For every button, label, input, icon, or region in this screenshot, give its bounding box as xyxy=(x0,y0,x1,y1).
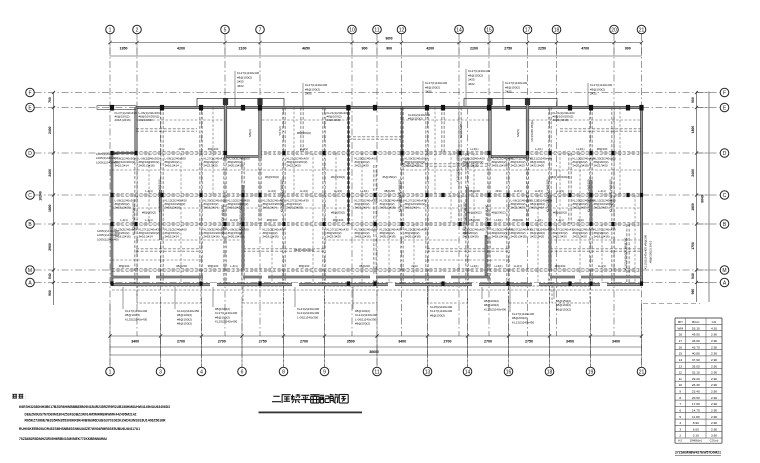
svg-text:#8@200(2): #8@200(2) xyxy=(331,211,345,215)
svg-text:14: 14 xyxy=(456,27,462,33)
svg-text:3.10: 3.10 xyxy=(693,434,699,438)
svg-text:F: F xyxy=(723,90,726,96)
svg-text:49.50: 49.50 xyxy=(692,333,700,337)
svg-text:L-4(1): L-4(1) xyxy=(120,218,128,222)
svg-text:YKT(2): YKT(2) xyxy=(278,126,282,136)
svg-text:43.70: 43.70 xyxy=(692,345,700,349)
svg-text:L-4(1): L-4(1) xyxy=(598,189,606,193)
svg-text:#8@200(2): #8@200(2) xyxy=(491,211,505,215)
svg-text:2700: 2700 xyxy=(444,340,452,344)
svg-text:L-06(1)240x300: L-06(1)240x300 xyxy=(297,315,319,319)
svg-text:KL10(2)240x400 #8@200: KL10(2)240x400 #8@200 xyxy=(644,234,648,269)
svg-text:7: 7 xyxy=(259,27,262,33)
svg-text:3500: 3500 xyxy=(347,340,355,344)
svg-text:14: 14 xyxy=(465,369,471,375)
svg-text:#8@200: #8@200 xyxy=(333,218,344,222)
svg-text:2#14: 2#14 xyxy=(178,147,185,151)
svg-text:#6@150(2): #6@150(2) xyxy=(553,211,567,215)
svg-text:10: 10 xyxy=(679,383,683,387)
svg-text:18: 18 xyxy=(679,333,683,337)
svg-text::: : xyxy=(25,395,26,400)
svg-text:#8@200: #8@200 xyxy=(469,218,480,222)
svg-text:19: 19 xyxy=(588,369,594,375)
svg-text:11: 11 xyxy=(374,27,379,33)
svg-text:18: 18 xyxy=(554,27,560,33)
svg-text:2#20;(3#18): 2#20;(3#18) xyxy=(228,164,244,168)
svg-text:KL12(2)240x450: KL12(2)240x450 xyxy=(512,320,535,324)
svg-text:2#22;3#20: 2#22;3#20 xyxy=(204,164,219,168)
svg-text:2#25: 2#25 xyxy=(305,92,312,96)
svg-text:#8@200: #8@200 xyxy=(384,189,395,193)
svg-text:2: 2 xyxy=(679,434,681,438)
svg-text:20: 20 xyxy=(611,27,617,33)
svg-text:KL3(2)240x500 #8@200: KL3(2)240x500 #8@200 xyxy=(239,202,243,235)
svg-text:2#18;(2#16): 2#18;(2#16) xyxy=(115,206,131,210)
svg-text:2#18;(2#16): 2#18;(2#16) xyxy=(594,235,610,239)
svg-text:540: 540 xyxy=(48,273,52,279)
svg-text:2.90: 2.90 xyxy=(711,390,717,394)
svg-text:17.60: 17.60 xyxy=(692,402,700,406)
svg-text:2.90: 2.90 xyxy=(711,409,717,413)
svg-text:16: 16 xyxy=(679,345,683,349)
svg-text:4#22: 4#22 xyxy=(237,84,244,88)
svg-text:2#22;3#20: 2#22;3#20 xyxy=(511,164,526,168)
svg-text:1800: 1800 xyxy=(691,203,695,211)
svg-text:23.40: 23.40 xyxy=(692,390,700,394)
svg-text:KL3(2)240x500 #8@200: KL3(2)240x500 #8@200 xyxy=(587,179,591,212)
svg-text:13: 13 xyxy=(679,364,683,368)
svg-text:2#20;(3#18): 2#20;(3#18) xyxy=(405,235,421,239)
svg-text:#8@200: #8@200 xyxy=(469,189,480,193)
svg-text:M2(3)4x88: M2(3)4x88 xyxy=(459,124,463,139)
svg-text:2#22;3#20: 2#22;3#20 xyxy=(573,206,588,210)
svg-text:18: 18 xyxy=(547,369,553,375)
svg-text:5: 5 xyxy=(679,415,681,419)
svg-text:3#16;2#14: 3#16;2#14 xyxy=(165,235,180,239)
svg-text:L005(1)240x400: L005(1)240x400 xyxy=(96,160,118,164)
svg-text:#8@100(2) 2#16: #8@100(2) 2#16 xyxy=(649,240,653,263)
svg-text:BH: BH xyxy=(678,320,682,324)
svg-text:2#18;(2#16): 2#18;(2#16) xyxy=(165,206,181,210)
svg-text:#6@150(2): #6@150(2) xyxy=(382,175,396,179)
svg-text:900: 900 xyxy=(691,97,695,103)
svg-text:#8@100(2): #8@100(2) xyxy=(408,117,423,121)
svg-text:L-4(1): L-4(1) xyxy=(535,218,543,222)
svg-text:2700: 2700 xyxy=(300,340,308,344)
svg-text:27ZSKM9BW427EW57D0M21: 27ZSKM9BW427EW57D0M21 xyxy=(675,451,721,455)
svg-text:20.50: 20.50 xyxy=(692,396,700,400)
svg-text:LL3(1): LL3(1) xyxy=(268,189,276,193)
svg-text:2#18;(2#16): 2#18;(2#16) xyxy=(492,164,508,168)
svg-text:L005(1)240x400: L005(1)240x400 xyxy=(97,237,119,241)
svg-text:#8@200: #8@200 xyxy=(555,264,566,268)
svg-text:L-4(1): L-4(1) xyxy=(230,264,238,268)
svg-text:900: 900 xyxy=(48,290,52,296)
svg-text:LL3(1): LL3(1) xyxy=(470,147,478,151)
svg-text:2#20;(3#18): 2#20;(3#18) xyxy=(573,164,589,168)
svg-text:9: 9 xyxy=(323,369,326,375)
svg-text:53.10: 53.10 xyxy=(692,326,700,330)
svg-text:14.70: 14.70 xyxy=(692,409,700,413)
svg-text:KL3(2)240x500 #8@200: KL3(2)240x500 #8@200 xyxy=(221,204,225,237)
svg-text:#8@100(2): #8@100(2) xyxy=(430,313,445,317)
svg-text:6: 6 xyxy=(241,369,244,375)
svg-text:2#22;3#20: 2#22;3#20 xyxy=(530,235,545,239)
svg-text:#8@200(2): #8@200(2) xyxy=(355,322,370,326)
svg-text:KL3(2)240x500 #8@200: KL3(2)240x500 #8@200 xyxy=(280,179,284,212)
svg-text:2700: 2700 xyxy=(177,340,185,344)
svg-text:2750: 2750 xyxy=(259,340,267,344)
svg-text:26.30: 26.30 xyxy=(692,383,700,387)
svg-text:12: 12 xyxy=(679,371,683,375)
svg-text:3400: 3400 xyxy=(612,340,620,344)
svg-text:#8@100/200(2): #8@100/200(2) xyxy=(550,175,570,179)
svg-text:2#20;(3#18): 2#20;(3#18) xyxy=(511,235,527,239)
svg-text:2.90: 2.90 xyxy=(711,396,717,400)
svg-text:2#22;3#20: 2#22;3#20 xyxy=(139,118,154,122)
svg-text:#8@100/200(2): #8@100/200(2) xyxy=(294,248,314,252)
svg-text:3: 3 xyxy=(679,427,681,431)
svg-text:2#18;(2#16): 2#18;(2#16) xyxy=(492,235,508,239)
svg-text:KL3(2)240x500 #8@200: KL3(2)240x500 #8@200 xyxy=(546,179,550,212)
svg-text:2#18;(2#16): 2#18;(2#16) xyxy=(355,235,371,239)
svg-text:12: 12 xyxy=(399,27,405,33)
svg-text:1800: 1800 xyxy=(691,126,695,134)
svg-text:900: 900 xyxy=(362,47,368,51)
svg-text:C: C xyxy=(723,193,727,199)
svg-text:2.90: 2.90 xyxy=(711,402,717,406)
svg-text:2400: 2400 xyxy=(48,126,52,134)
svg-text:8: 8 xyxy=(679,396,681,400)
svg-text:#8@200(2): #8@200(2) xyxy=(142,211,156,215)
svg-text:4200: 4200 xyxy=(426,47,434,51)
svg-text:#6@150(2): #6@150(2) xyxy=(556,307,571,311)
svg-text:F: F xyxy=(28,90,31,96)
svg-text:2#22;3#20: 2#22;3#20 xyxy=(553,235,568,239)
svg-text:LL3(1): LL3(1) xyxy=(300,147,308,151)
svg-text:HJ: HJ xyxy=(678,439,682,443)
svg-text:3.60: 3.60 xyxy=(711,434,717,438)
svg-text:6: 6 xyxy=(679,409,681,413)
svg-text:2400: 2400 xyxy=(48,169,52,177)
svg-text:K6ESH32380NH3B017B2SR6HWBBB85B: K6ESH32380NH3B017B2SR6HWBBB85B09N1B4R235… xyxy=(19,405,170,409)
svg-text:KL25(2)240x400: KL25(2)240x400 xyxy=(125,317,148,321)
svg-text:3: 3 xyxy=(159,369,162,375)
svg-text:#6@150(2): #6@150(2) xyxy=(331,175,345,179)
svg-text:3#16;2#14: 3#16;2#14 xyxy=(165,164,180,168)
svg-text:2.90: 2.90 xyxy=(711,345,717,349)
svg-text:LL3(1): LL3(1) xyxy=(230,218,238,222)
svg-text:2.90: 2.90 xyxy=(711,364,717,368)
svg-text:2#20;(3#18): 2#20;(3#18) xyxy=(139,164,155,168)
svg-text:1/C15x88 #8@2: 1/C15x88 #8@2 xyxy=(530,120,534,142)
svg-text:DEEZM9US7N7D69M1804Z524SDBZ2W0: DEEZM9US7N7D69M1804Z524SDBZ2W014M5MRRBMW… xyxy=(25,413,138,417)
svg-text:8.90: 8.90 xyxy=(693,421,699,425)
svg-text:17: 17 xyxy=(679,339,683,343)
svg-text:KL3(2)240x500 #8@200: KL3(2)240x500 #8@200 xyxy=(158,179,162,212)
svg-text:2#22;3#20: 2#22;3#20 xyxy=(511,206,526,210)
svg-text:2#18;(2#16): 2#18;(2#16) xyxy=(115,118,131,122)
svg-text:KL3(2)240x500 #8@200: KL3(2)240x500 #8@200 xyxy=(624,237,628,270)
svg-text:4#22: 4#22 xyxy=(468,82,475,86)
svg-text:LL3(1): LL3(1) xyxy=(576,147,584,151)
svg-text:2.90: 2.90 xyxy=(711,358,717,362)
svg-text:14: 14 xyxy=(679,358,683,362)
svg-text:21: 21 xyxy=(639,369,645,375)
svg-text:LL3(1): LL3(1) xyxy=(598,264,606,268)
svg-text:L-4(1): L-4(1) xyxy=(556,218,564,222)
svg-text:2.90: 2.90 xyxy=(711,339,717,343)
svg-text:2.90: 2.90 xyxy=(711,371,717,375)
svg-text:9600: 9600 xyxy=(385,37,392,41)
svg-text:2750: 2750 xyxy=(504,47,512,51)
svg-text:2.90: 2.90 xyxy=(711,427,717,431)
svg-text:13: 13 xyxy=(425,369,431,375)
svg-text:M: M xyxy=(28,268,32,274)
svg-text:15: 15 xyxy=(679,352,683,356)
svg-text:2.90: 2.90 xyxy=(711,383,717,387)
svg-text:2900: 2900 xyxy=(48,243,52,251)
svg-text:#8@200: #8@200 xyxy=(176,264,187,268)
svg-text:3#16;2#14: 3#16;2#14 xyxy=(263,206,278,210)
svg-text:L-4(1): L-4(1) xyxy=(145,189,153,193)
svg-text:D: D xyxy=(723,151,727,157)
svg-text:19466(m): 19466(m) xyxy=(690,439,702,443)
svg-text:CG: CG xyxy=(712,320,717,324)
svg-text:7: 7 xyxy=(679,402,681,406)
svg-text:11: 11 xyxy=(374,369,379,375)
svg-text:#8@200: #8@200 xyxy=(208,147,219,151)
svg-text:2#20;(3#18): 2#20;(3#18) xyxy=(380,206,396,210)
svg-text:4700: 4700 xyxy=(581,47,589,51)
svg-text:1950: 1950 xyxy=(120,47,128,51)
svg-text:LL3(1): LL3(1) xyxy=(494,218,502,222)
svg-text:900: 900 xyxy=(386,47,392,51)
svg-text:KL25(2)240x400: KL25(2)240x400 xyxy=(215,320,238,324)
svg-text:LL3(1): LL3(1) xyxy=(470,264,478,268)
svg-text:6.00: 6.00 xyxy=(693,427,699,431)
svg-text:2.90: 2.90 xyxy=(711,333,717,337)
svg-text:M5(2): M5(2) xyxy=(248,129,252,137)
svg-text:4200: 4200 xyxy=(177,47,185,51)
svg-text:2#20;(3#18): 2#20;(3#18) xyxy=(380,235,396,239)
svg-text:2: 2 xyxy=(136,27,139,33)
svg-text:2#18;(2#16): 2#18;(2#16) xyxy=(463,164,479,168)
svg-text:KL3(2)240x500 #8@200: KL3(2)240x500 #8@200 xyxy=(463,202,467,235)
svg-text:#6@150(2): #6@150(2) xyxy=(265,175,279,179)
svg-text:2#22;3#20: 2#22;3#20 xyxy=(287,164,302,168)
svg-text:3#16;2#14: 3#16;2#14 xyxy=(530,206,545,210)
svg-text:BGm: BGm xyxy=(692,320,699,324)
svg-text:2.90: 2.90 xyxy=(711,421,717,425)
svg-text:R65KZ7386E7B3S5RN355308KR8K40B: R65KZ7386E7B3S5RN355308KR8K40B9EM6DUBS37… xyxy=(25,419,166,423)
svg-text:17: 17 xyxy=(525,27,531,33)
svg-text:2400: 2400 xyxy=(691,169,695,177)
svg-text:46.60: 46.60 xyxy=(692,339,700,343)
svg-text:2200: 2200 xyxy=(470,47,478,51)
svg-text:KL3(2)240x500 #8@200: KL3(2)240x500 #8@200 xyxy=(485,204,489,237)
svg-text:9640: 9640 xyxy=(701,195,705,203)
svg-text:32.10: 32.10 xyxy=(692,371,700,375)
svg-text:M: M xyxy=(722,268,726,274)
svg-text:1: 1 xyxy=(109,369,112,375)
svg-text:#8@200: #8@200 xyxy=(299,264,310,268)
svg-text:2#22;3#20: 2#22;3#20 xyxy=(530,164,545,168)
svg-text:2#14: 2#14 xyxy=(577,218,584,222)
svg-text:L-4(1): L-4(1) xyxy=(145,218,153,222)
svg-text:2#25: 2#25 xyxy=(505,90,512,94)
svg-text:KL25(2)240x400: KL25(2)240x400 xyxy=(484,307,507,311)
svg-text:2#18;(2#16): 2#18;(2#16) xyxy=(263,235,279,239)
svg-text:2250: 2250 xyxy=(538,47,546,51)
svg-text:2#18;(2#16): 2#18;(2#16) xyxy=(204,235,220,239)
svg-text:2700: 2700 xyxy=(218,340,226,344)
svg-text:L-4(1): L-4(1) xyxy=(535,147,543,151)
svg-text:36600: 36600 xyxy=(369,350,379,354)
svg-text:#8@200: #8@200 xyxy=(359,264,370,268)
svg-text:2#25: 2#25 xyxy=(590,92,597,96)
svg-text:LL3(1): LL3(1) xyxy=(494,264,502,268)
svg-text:#8@200(2): #8@200(2) xyxy=(297,131,311,135)
svg-text:2#22;3#20: 2#22;3#20 xyxy=(573,235,588,239)
svg-text:LL3(1): LL3(1) xyxy=(535,189,543,193)
svg-text:11.80: 11.80 xyxy=(692,415,700,419)
svg-text:#8@200: #8@200 xyxy=(208,264,219,268)
svg-text:11: 11 xyxy=(679,377,682,381)
svg-text:1800: 1800 xyxy=(48,204,52,212)
svg-text:RUH03KEEB05UDR45ZSMHSNB8SSNMUU: RUH03KEEB05UDR45ZSMHSNB8SSNMUU8ZE7W904RM… xyxy=(19,427,140,431)
svg-text:3#16;2#14: 3#16;2#14 xyxy=(355,206,370,210)
svg-text:2#20;(3#18): 2#20;(3#18) xyxy=(553,118,569,122)
svg-text:4650: 4650 xyxy=(302,47,310,51)
svg-text:M2(5): M2(5) xyxy=(516,129,520,137)
svg-text:4: 4 xyxy=(679,421,681,425)
svg-text:KL3(2)240x500 #8@200: KL3(2)240x500 #8@200 xyxy=(132,202,136,235)
svg-text:#8@200: #8@200 xyxy=(597,147,608,151)
svg-text:#8@200: #8@200 xyxy=(119,264,130,268)
svg-text:#8@200: #8@200 xyxy=(267,218,278,222)
svg-text:3#16;2#14: 3#16;2#14 xyxy=(139,235,154,239)
svg-text:2.90: 2.90 xyxy=(711,352,717,356)
svg-text:2#22;3#20: 2#22;3#20 xyxy=(594,206,609,210)
svg-text:2.90: 2.90 xyxy=(711,415,717,419)
svg-text:2#22;3#20: 2#22;3#20 xyxy=(327,118,342,122)
svg-text:LL3(1): LL3(1) xyxy=(556,189,564,193)
svg-text:900: 900 xyxy=(625,47,631,51)
svg-text:WM: WM xyxy=(678,326,684,330)
svg-text:540: 540 xyxy=(691,273,695,279)
svg-text:2#22;3#20: 2#22;3#20 xyxy=(355,164,370,168)
svg-text:2#22;3#20: 2#22;3#20 xyxy=(594,164,609,168)
svg-text:35.00: 35.00 xyxy=(692,364,700,368)
svg-text:KL3(2)240x500 #8@200: KL3(2)240x500 #8@200 xyxy=(456,149,460,182)
svg-text:2#25: 2#25 xyxy=(425,90,432,94)
svg-text:#8@100(2): #8@100(2) xyxy=(177,322,192,326)
svg-text:LL3(1): LL3(1) xyxy=(334,189,342,193)
svg-text:2700: 2700 xyxy=(484,340,492,344)
svg-text:15: 15 xyxy=(486,27,492,33)
svg-text:8: 8 xyxy=(282,369,285,375)
svg-text:10: 10 xyxy=(349,27,355,33)
svg-text:3#16;2#14: 3#16;2#14 xyxy=(405,206,420,210)
svg-text:D: D xyxy=(28,151,32,157)
svg-text:3400: 3400 xyxy=(398,340,406,344)
svg-text:5: 5 xyxy=(224,27,227,33)
svg-text:2#20;(3#18): 2#20;(3#18) xyxy=(287,206,303,210)
svg-text:7SZ84B2R8DMHZ3R05H6RBN1SM0MEK7: 7SZ84B2R8DMHZ3R05H6RBN1SM0MEK772KKBBNNMM… xyxy=(19,437,107,441)
svg-text:3#16;2#14: 3#16;2#14 xyxy=(204,206,219,210)
svg-text:#8@200: #8@200 xyxy=(512,218,523,222)
svg-text:16240: 16240 xyxy=(39,191,43,201)
svg-text:CG(m): CG(m) xyxy=(710,439,719,443)
svg-text:4.10: 4.10 xyxy=(711,326,717,330)
svg-text:3400: 3400 xyxy=(566,340,574,344)
svg-text:2#14: 2#14 xyxy=(495,189,502,193)
svg-text:2#18;(2#16): 2#18;(2#16) xyxy=(405,164,421,168)
svg-text:2100: 2100 xyxy=(239,47,247,51)
svg-text:2#14: 2#14 xyxy=(411,264,418,268)
svg-text:37.90: 37.90 xyxy=(692,358,700,362)
svg-text:2750: 2750 xyxy=(525,340,533,344)
svg-text:4: 4 xyxy=(200,369,203,375)
svg-text:9: 9 xyxy=(679,390,681,394)
svg-text:C: C xyxy=(28,193,32,199)
svg-text:21: 21 xyxy=(639,27,645,33)
svg-text:3400: 3400 xyxy=(131,340,139,344)
svg-text:2#22;3#20: 2#22;3#20 xyxy=(327,235,342,239)
svg-text:2.90: 2.90 xyxy=(711,377,717,381)
svg-text:KL3(2)240x500 #8@200: KL3(2)240x500 #8@200 xyxy=(609,179,613,212)
svg-text:29.20: 29.20 xyxy=(692,377,700,381)
svg-text:LL3(1): LL3(1) xyxy=(360,189,368,193)
svg-text:KL3(2)240x500 #8@200: KL3(2)240x500 #8@200 xyxy=(398,179,402,212)
svg-text:LL3(1): LL3(1) xyxy=(514,189,522,193)
svg-text:LL3(1): LL3(1) xyxy=(300,189,308,193)
svg-text:700: 700 xyxy=(48,97,52,103)
svg-text:16: 16 xyxy=(506,369,512,375)
svg-text:#6@150(2): #6@150(2) xyxy=(467,211,481,215)
svg-text:1: 1 xyxy=(109,27,112,33)
svg-text:1700: 1700 xyxy=(691,242,695,250)
svg-text:LL3(1): LL3(1) xyxy=(514,264,522,268)
svg-text:40.80: 40.80 xyxy=(692,352,700,356)
svg-text:960: 960 xyxy=(691,289,695,295)
